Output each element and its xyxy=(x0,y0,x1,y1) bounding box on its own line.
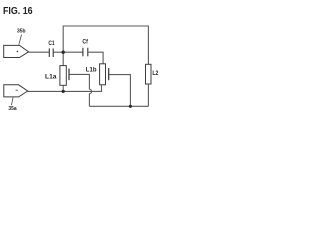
svg-text:L1a: L1a xyxy=(45,73,57,80)
leader line 35a xyxy=(11,98,13,106)
wire right vertical to L2 xyxy=(147,26,149,65)
wire top bus xyxy=(63,25,148,27)
wire 35b to C1 xyxy=(29,51,49,53)
svg-text:FIG. 16: FIG. 16 xyxy=(3,6,33,17)
wire bottom-right bus xyxy=(89,105,148,107)
svg-text:L1b: L1b xyxy=(86,67,97,74)
wire Cf to L1b column xyxy=(88,52,103,64)
wire L1b tap to right xyxy=(109,75,130,107)
transducer 35b xyxy=(4,45,29,57)
tap bar of L1b xyxy=(108,68,110,80)
polarity mark of 35b xyxy=(17,51,19,53)
svg-text:L2: L2 xyxy=(152,70,159,77)
inductor L2 xyxy=(146,64,152,84)
junction dot bottom bus xyxy=(129,105,132,108)
wire hop column down to bottom bus xyxy=(88,94,90,107)
inductor L1b xyxy=(100,64,106,85)
junction dot at L1a bottom xyxy=(62,90,65,93)
wire hop over bottom bus xyxy=(89,89,91,93)
inductor L1a xyxy=(60,66,66,86)
node A junction dot xyxy=(62,51,65,54)
svg-text:35b: 35b xyxy=(17,29,26,35)
transducer 35a xyxy=(4,85,28,97)
svg-text:35a: 35a xyxy=(8,106,17,112)
tap bar of L1a xyxy=(68,69,70,81)
polarity mark of 35a xyxy=(16,89,18,91)
wire L2 bottom xyxy=(147,84,149,106)
wire bottom bus from 35a to L1b bottom xyxy=(28,85,102,92)
wire C1 to node A to Cf xyxy=(54,51,83,53)
capacitor Cf xyxy=(83,48,88,57)
svg-text:C1: C1 xyxy=(48,40,55,47)
wire L1a bottom to bus xyxy=(62,85,64,91)
leader line 35b xyxy=(19,35,22,45)
wire left vertical (node column) xyxy=(62,26,64,66)
wire L1a tap to right xyxy=(69,74,89,89)
svg-text:Cf: Cf xyxy=(82,39,88,46)
capacitor C1 xyxy=(49,48,53,57)
